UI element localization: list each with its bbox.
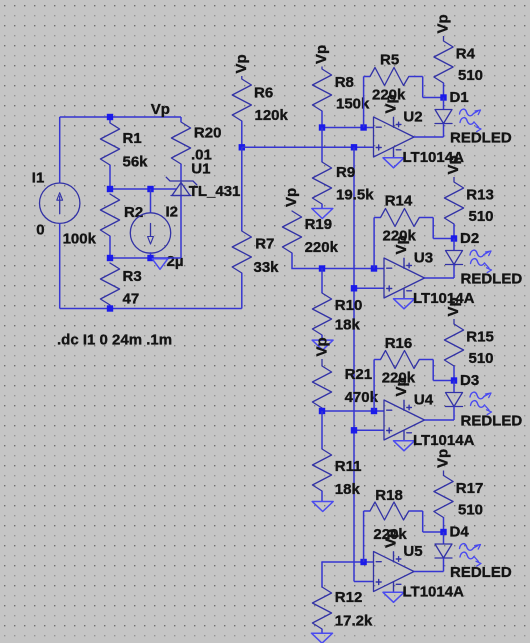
svg-text:Vp: Vp [313,45,330,64]
svg-text:Vp: Vp [393,235,410,254]
svg-text:18k: 18k [335,317,361,334]
wire bus to U5 noninverting input [354,581,374,583]
resistor R21 [312,366,331,408]
svg-text:220k: 220k [305,239,339,256]
node junction signal bus tee [351,144,357,150]
svg-text:R9: R9 [336,164,355,181]
node junction D4 anode [440,529,446,535]
wire U5 inverting input line [322,561,374,563]
node junction R3 bottom rail [107,305,113,311]
wire R5 left leg down to inverting input [363,77,365,128]
svg-text:56k: 56k [123,154,149,171]
wire signal bus vertical [353,147,355,581]
svg-text:R13: R13 [466,187,494,204]
resistor R14 feedback [381,209,420,227]
svg-text:18k: 18k [335,481,361,498]
wire R14 right lead [419,217,433,219]
node junction R6/R7 tap [239,144,245,150]
svg-text:REDLED: REDLED [450,130,512,147]
op-amp U4 [384,400,425,440]
svg-text:R16: R16 [385,335,413,352]
current source I1 [40,183,80,223]
svg-text:510: 510 [469,208,494,225]
node junction R1/R2 [107,186,113,192]
wire R10 top [321,269,323,294]
wire R6 bottom [241,121,243,147]
ground below R11 [312,502,333,512]
wire R3 bottom [109,305,111,309]
wire R16 right leg down [432,360,434,381]
wire R11 top [321,411,323,449]
svg-text:I2: I2 [166,203,179,220]
node junction bus U4 [351,427,357,433]
wire R16 to D3 anode node [433,380,454,382]
wire R12 top [321,562,323,587]
svg-text:U4: U4 [414,391,434,408]
wire bus to U4 noninverting input [354,429,384,431]
svg-text:100k: 100k [63,231,97,248]
svg-text:R19: R19 [305,216,333,233]
node junction R19/R10 tap [319,265,325,271]
wire R9 bottom [321,204,323,209]
svg-text:19.5k: 19.5k [336,187,374,204]
wire R17 bottom [443,518,445,533]
wire R14 right leg down [432,218,434,239]
wire R7 top [241,147,243,231]
svg-text:33k: 33k [254,259,280,276]
wire R20 bottom to U1 cathode [180,164,182,181]
wire U3 inverting input line [322,268,384,270]
wire R12 bottom [321,629,323,633]
resistor R1 [100,123,119,165]
wire signal line to U2 noninverting input [242,146,374,148]
wire R14 left leg down to inverting input [373,218,375,269]
ground below R12 [312,633,333,643]
resistor R8 [312,69,331,111]
svg-text:REDLED: REDLED [461,271,523,288]
svg-text:R11: R11 [335,458,362,475]
node junction R2/R3 [107,255,113,261]
wire R5 to D1 anode node [423,97,444,99]
wire I2 bottom lead [150,252,152,258]
svg-text:R20: R20 [194,125,222,142]
node junction R14 feedback tee [371,265,377,271]
resistor R9 [312,162,331,204]
op-amp U3 [384,258,425,298]
wire R14 left lead [374,217,380,219]
svg-text:47: 47 [123,291,140,308]
op-amp U3 V- ground [394,299,415,309]
node junction D2 anode [451,235,457,241]
svg-text:R1: R1 [123,130,142,147]
wire U2 output to D1 [414,136,444,138]
svg-text:Vp: Vp [445,155,462,174]
wire R18 left leg down to inverting input [363,511,365,562]
svg-text:R7: R7 [255,235,274,252]
svg-text:510: 510 [458,502,483,519]
wire U1 pin through symbol [180,181,182,196]
svg-text:R15: R15 [466,329,494,346]
wire ref node horizontal [110,188,177,190]
svg-text:D4: D4 [450,524,470,541]
svg-text:R6: R6 [254,84,273,101]
svg-text:D1: D1 [450,89,469,106]
wire R7 bottom [241,273,243,309]
svg-text:U1: U1 [191,161,210,178]
node junction D3 anode [451,377,457,383]
wire R10 bottom [321,335,323,340]
svg-text:R18: R18 [375,487,403,504]
svg-text:150k: 150k [336,95,370,112]
resistor R18 feedback [370,502,409,520]
node junction bus U3 [351,285,357,291]
svg-text:Vp: Vp [233,54,250,73]
wire U2 inverting input line [322,127,374,129]
svg-text:510: 510 [469,350,494,367]
wire top rail Vp [60,116,181,118]
wire R5 right lead [409,76,423,78]
op-amp U5 V- ground [383,592,404,602]
svg-text:U5: U5 [403,543,422,560]
svg-text:Vp: Vp [383,529,400,548]
resistor R5 feedback [370,68,409,86]
op-amp U2 V- ground [383,158,404,168]
svg-text:R10: R10 [335,297,363,314]
wire R19 bottom [292,253,322,269]
ground below R10 [312,340,333,350]
shunt reference U1 TL_431 [166,177,197,185]
resistor R20 [171,122,190,164]
op-amp U2 [374,117,415,157]
node junction R8/R9 tap [319,124,325,130]
wire R1 top [109,117,111,123]
svg-text:510: 510 [458,67,483,84]
resistor R6 [232,79,251,121]
svg-text:17.2k: 17.2k [335,613,373,630]
svg-text:0: 0 [36,222,44,239]
svg-text:.dc I1 0 24m .1m: .dc I1 0 24m .1m [57,332,172,349]
wire left rail lower [59,223,61,308]
svg-text:R12: R12 [335,589,363,606]
svg-text:TL_431: TL_431 [189,183,241,200]
resistor R3 [100,263,119,305]
node junction R21/R11 tap [319,408,325,414]
wire R13 bottom [453,224,455,239]
wire R1 bottom [109,165,111,189]
wire R18 right lead [409,510,423,512]
node junction I2 bottom [147,255,153,261]
resistor R11 [312,449,331,491]
svg-text:R5: R5 [380,52,399,69]
node junction R18 feedback tee [360,559,366,565]
svg-text:LT1014A: LT1014A [413,290,475,307]
svg-text:REDLED: REDLED [461,413,523,430]
wire R2 bottom [109,236,111,258]
resistor R2 [100,194,119,236]
svg-text:Vp: Vp [151,101,170,118]
svg-text:R8: R8 [335,74,354,91]
wire R16 left lead [374,359,380,361]
wire R5 left lead [364,76,370,78]
op-amp U4 V- ground [394,441,415,451]
svg-text:U2: U2 [403,108,422,125]
wire R9 top [321,128,323,163]
svg-text:LT1014A: LT1014A [413,432,475,449]
wire I2 top lead [150,189,152,213]
svg-text:Vp: Vp [435,14,452,33]
wire bottom rail [60,308,242,310]
svg-text:LT1014A: LT1014A [403,584,465,601]
LED D1 [443,98,445,110]
svg-text:Vp: Vp [445,297,462,316]
svg-text:R17: R17 [456,480,484,497]
svg-text:R14: R14 [385,193,413,210]
wire U1 anode down [180,196,182,259]
svg-text:Vp: Vp [393,377,410,396]
wire R8 bottom [321,111,323,128]
node junction R1 top rail [107,114,113,120]
wire R18 right leg down [422,511,424,532]
svg-text:U3: U3 [414,249,433,266]
svg-text:120k: 120k [255,107,289,124]
resistor R15 [444,324,463,366]
svg-text:R3: R3 [123,268,142,285]
svg-text:Vp: Vp [283,188,300,207]
svg-text:D3: D3 [460,372,479,389]
wire R21 top stub [321,359,323,366]
LED D3 [453,381,455,393]
node junction R5 feedback tee [360,124,366,130]
node junction I2 top [147,186,153,192]
svg-text:R21: R21 [345,366,373,383]
resistor R16 feedback [381,351,420,369]
resistor R12 [312,587,331,629]
wire anode net horizontal [110,257,181,259]
svg-text:I1: I1 [32,170,45,187]
current source I2 [130,213,170,253]
resistor R19 [282,211,301,253]
resistor R4 [434,41,453,83]
wire R20 top [180,117,182,122]
resistor R13 [444,182,463,224]
wire U3 output to D2 [425,277,455,279]
wire left rail upper [59,117,61,183]
LED D2 [453,239,455,251]
svg-text:REDLED: REDLED [450,564,512,581]
wire R11 bottom [321,491,323,502]
wire R16 right lead [419,359,433,361]
resistor R10 [312,293,331,335]
svg-text:Vp: Vp [314,337,331,356]
node junction R16 feedback tee [371,408,377,414]
wire R21 bottom [321,408,323,411]
resistor R7 [232,231,251,273]
svg-text:Vp: Vp [383,94,400,113]
wire R14 to D2 anode node [433,238,454,240]
wire U4 inverting input line [322,410,384,412]
wire R18 to D4 anode node [423,531,444,533]
ground at I2 bottom [152,259,168,270]
LED D4 [443,532,445,544]
svg-text:R2: R2 [124,204,143,221]
svg-text:D2: D2 [460,230,479,247]
wire R4 bottom [443,83,445,98]
node junction D1 anode [440,94,446,100]
wire R18 left lead [364,510,370,512]
wire bus to U3 noninverting input [354,287,384,289]
svg-text:Vp: Vp [435,449,452,468]
resistor R17 [434,476,453,518]
wire R15 bottom [453,366,455,381]
wire U5 output to D4 [414,571,444,573]
op-amp U5 [374,552,415,592]
ground below R9 [312,209,333,219]
wire U4 output to D3 [425,419,455,421]
svg-text:R4: R4 [456,46,476,63]
wire R5 right leg down [422,77,424,98]
wire R16 left leg down to inverting input [373,360,375,411]
